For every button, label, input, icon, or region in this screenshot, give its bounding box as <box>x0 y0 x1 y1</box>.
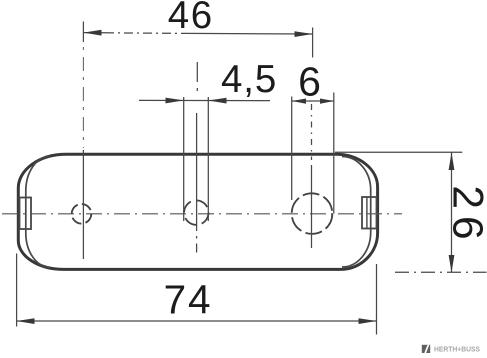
left snap tab <box>20 198 32 230</box>
dimension 46: right arrow <box>295 31 313 37</box>
dimension 6: right arrow <box>320 99 334 104</box>
dimension 4,5: dimension line <box>139 99 270 101</box>
right snap tab <box>362 197 377 229</box>
svg-text:26: 26 <box>443 185 487 246</box>
dimension 4,5: left arrow <box>166 98 184 104</box>
dimension 4,5: right extension line <box>207 97 209 221</box>
svg-text:4,5: 4,5 <box>221 58 277 101</box>
hole middle (d4.5) <box>184 200 208 224</box>
inner contour right end <box>342 157 371 268</box>
horizontal centerline <box>2 213 402 215</box>
dimension 4,5: left extension line <box>183 97 185 221</box>
dimension 6: left extension line <box>291 97 293 201</box>
dimension 4,5: right arrow <box>208 98 226 104</box>
dimension 26: dimension line <box>451 153 453 273</box>
hole right vertical centerline <box>311 104 313 160</box>
dimension 74: left extension line <box>16 254 18 327</box>
hole middle vertical centerline <box>196 62 199 253</box>
part outline (obround housing, flattened ends) <box>18 154 377 269</box>
dimension 46: right extension line <box>312 28 314 58</box>
dimension 6: dimension line <box>292 100 334 102</box>
right snap tab inner line <box>366 197 368 229</box>
hole left (d4.5) <box>72 204 92 224</box>
dimension 6: right extension line <box>333 93 335 214</box>
dimension 26: bottom extension line <box>395 271 487 273</box>
hole left vertical centerline / 46 extension line <box>82 22 84 43</box>
svg-text:74: 74 <box>164 277 213 323</box>
logo icon <box>422 345 430 353</box>
dimension 46: dimension line <box>84 32 106 34</box>
svg-text:6: 6 <box>298 59 321 105</box>
dimension 74: dimension line <box>17 320 377 322</box>
dimension 74: left arrow <box>17 318 35 324</box>
inner contour left end <box>26 156 50 267</box>
dimension 6: left arrow <box>292 99 306 104</box>
hole right (d6) <box>292 193 333 234</box>
dimension 74: right extension line <box>376 264 378 335</box>
dimension 26: bottom arrow <box>449 255 455 273</box>
dimension 74: right arrow <box>359 318 377 324</box>
svg-text:HERTH+BUSS: HERTH+BUSS <box>434 345 480 354</box>
dimension 26: top arrow <box>449 153 455 171</box>
dimension 26: top extension line <box>335 151 462 153</box>
svg-text:46: 46 <box>168 0 214 37</box>
dimension 46: left arrow <box>84 30 102 36</box>
